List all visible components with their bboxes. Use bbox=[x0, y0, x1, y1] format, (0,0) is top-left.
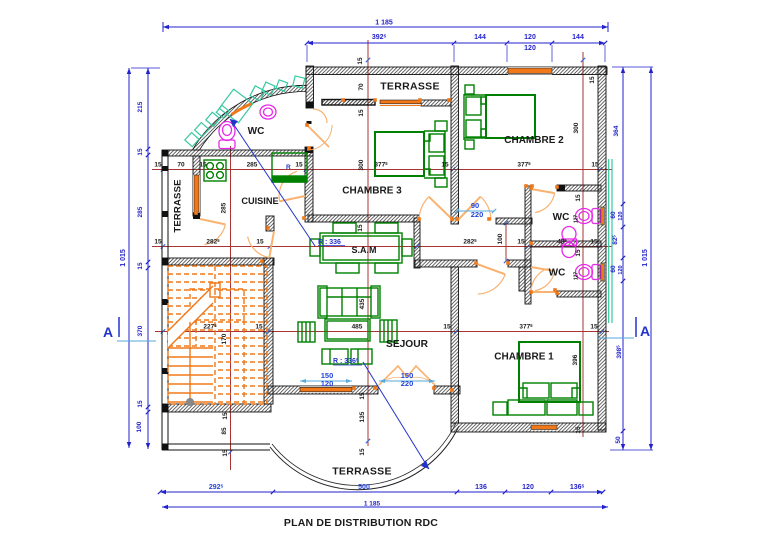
svg-text:S.A.M: S.A.M bbox=[351, 245, 376, 255]
svg-text:120: 120 bbox=[524, 45, 536, 52]
svg-text:285: 285 bbox=[137, 206, 144, 217]
svg-text:120: 120 bbox=[321, 379, 334, 388]
svg-text:R : 3365: R : 3365 bbox=[333, 358, 359, 366]
svg-text:300: 300 bbox=[573, 122, 580, 133]
svg-text:CHAMBRE 3: CHAMBRE 3 bbox=[342, 186, 402, 197]
svg-text:120: 120 bbox=[522, 484, 534, 491]
svg-text:127: 127 bbox=[574, 215, 580, 224]
svg-text:15: 15 bbox=[154, 239, 162, 246]
svg-text:136: 136 bbox=[475, 484, 487, 491]
svg-text:TERRASSE: TERRASSE bbox=[173, 179, 184, 232]
svg-text:WC: WC bbox=[553, 212, 570, 223]
svg-text:15: 15 bbox=[199, 162, 207, 169]
svg-text:500: 500 bbox=[358, 484, 370, 491]
svg-text:15: 15 bbox=[137, 148, 144, 156]
svg-text:PLAN DE DISTRIBUTION RDC: PLAN DE DISTRIBUTION RDC bbox=[284, 517, 438, 529]
svg-text:15: 15 bbox=[575, 249, 582, 257]
svg-text:15: 15 bbox=[517, 239, 525, 246]
svg-text:15: 15 bbox=[358, 109, 365, 117]
svg-text:285: 285 bbox=[247, 162, 258, 169]
svg-text:364: 364 bbox=[613, 125, 620, 136]
svg-text:CUISINE: CUISINE bbox=[241, 196, 278, 206]
svg-text:435: 435 bbox=[359, 298, 366, 309]
svg-text:1 015: 1 015 bbox=[642, 249, 649, 267]
svg-text:CHAMBRE 1: CHAMBRE 1 bbox=[494, 352, 554, 363]
svg-text:170: 170 bbox=[221, 333, 228, 344]
svg-text:220: 220 bbox=[471, 210, 484, 219]
svg-text:396: 396 bbox=[572, 354, 579, 365]
svg-text:370: 370 bbox=[137, 325, 144, 336]
svg-text:CHAMBRE 2: CHAMBRE 2 bbox=[504, 135, 564, 146]
svg-text:TERRASSE: TERRASSE bbox=[332, 466, 392, 478]
svg-text:15: 15 bbox=[575, 426, 582, 434]
svg-text:220: 220 bbox=[401, 379, 414, 388]
svg-text:15: 15 bbox=[255, 324, 263, 331]
svg-text:120: 120 bbox=[618, 211, 624, 220]
svg-text:15: 15 bbox=[222, 449, 229, 457]
svg-text:70: 70 bbox=[358, 83, 365, 91]
svg-text:WC: WC bbox=[248, 126, 265, 137]
svg-text:127: 127 bbox=[574, 272, 580, 281]
svg-text:60: 60 bbox=[610, 265, 617, 273]
svg-text:1 185: 1 185 bbox=[364, 501, 381, 508]
svg-text:15: 15 bbox=[137, 400, 144, 408]
svg-text:15: 15 bbox=[590, 324, 598, 331]
svg-text:TERRASSE: TERRASSE bbox=[380, 81, 440, 93]
svg-text:50: 50 bbox=[615, 436, 622, 444]
svg-text:WC: WC bbox=[549, 268, 566, 279]
svg-text:R : 336: R : 336 bbox=[318, 239, 341, 246]
svg-text:90: 90 bbox=[471, 201, 479, 210]
svg-text:1 015: 1 015 bbox=[120, 249, 127, 267]
svg-text:100: 100 bbox=[497, 233, 504, 244]
svg-text:85: 85 bbox=[221, 427, 228, 435]
svg-text:60: 60 bbox=[610, 211, 617, 219]
svg-text:300: 300 bbox=[358, 159, 365, 170]
svg-text:100: 100 bbox=[136, 421, 143, 432]
svg-text:15: 15 bbox=[295, 162, 303, 169]
svg-text:15: 15 bbox=[359, 392, 366, 400]
svg-text:A: A bbox=[103, 324, 113, 340]
svg-text:1 185: 1 185 bbox=[375, 20, 393, 27]
svg-text:SEJOUR: SEJOUR bbox=[386, 339, 429, 350]
svg-text:120: 120 bbox=[524, 34, 536, 41]
svg-text:15: 15 bbox=[443, 324, 451, 331]
svg-text:144: 144 bbox=[474, 34, 486, 41]
svg-text:15: 15 bbox=[589, 76, 596, 84]
svg-text:15: 15 bbox=[441, 162, 449, 169]
svg-text:215: 215 bbox=[137, 101, 144, 112]
svg-text:120: 120 bbox=[618, 265, 624, 274]
svg-text:15: 15 bbox=[256, 239, 264, 246]
svg-text:15: 15 bbox=[357, 224, 364, 232]
svg-text:135: 135 bbox=[359, 411, 366, 422]
svg-text:15: 15 bbox=[590, 239, 598, 246]
svg-text:15: 15 bbox=[137, 262, 144, 270]
svg-text:285: 285 bbox=[221, 202, 228, 213]
svg-text:15: 15 bbox=[222, 412, 229, 420]
svg-text:R: R bbox=[286, 164, 291, 171]
svg-text:15: 15 bbox=[357, 57, 364, 65]
svg-text:15: 15 bbox=[591, 162, 599, 169]
svg-text:A: A bbox=[640, 323, 650, 339]
svg-text:15: 15 bbox=[154, 162, 162, 169]
svg-text:70: 70 bbox=[177, 162, 185, 169]
svg-text:15: 15 bbox=[359, 448, 366, 456]
svg-text:485: 485 bbox=[352, 324, 363, 331]
svg-text:144: 144 bbox=[572, 34, 584, 41]
svg-text:15: 15 bbox=[575, 194, 582, 202]
